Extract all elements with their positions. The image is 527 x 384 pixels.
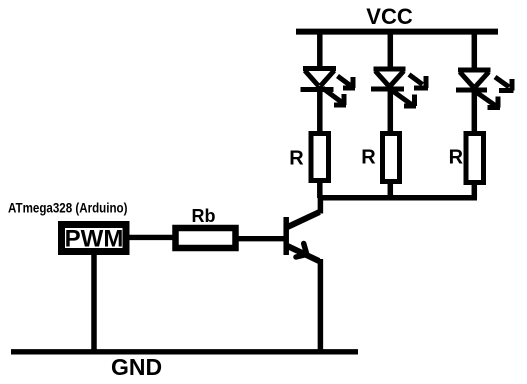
PWM box <box>62 225 127 252</box>
resistor R1 <box>311 134 329 181</box>
wire PWM to Rb <box>126 235 176 240</box>
LED D2 <box>371 69 406 89</box>
resistor R3 <box>466 134 484 183</box>
wire PWM to GND <box>91 252 97 352</box>
transistor Q1 <box>286 196 320 352</box>
svg-text:PWM: PWM <box>65 226 124 253</box>
collector wire vertical <box>318 196 324 214</box>
node line collector bus <box>321 195 477 201</box>
LED D3 <box>456 70 491 90</box>
wire VCC to D2 <box>388 31 394 68</box>
GND rail <box>11 349 358 354</box>
resistor Rb <box>176 228 236 248</box>
svg-text:Rb: Rb <box>192 206 216 226</box>
wire R1 to node <box>317 181 323 198</box>
LED D3 arrows <box>476 77 514 108</box>
svg-text:R: R <box>449 147 464 169</box>
svg-text:VCC: VCC <box>366 4 413 29</box>
wire D2 to R2 <box>388 86 394 133</box>
base bar <box>283 217 289 255</box>
wire VCC to D3 <box>472 31 478 69</box>
resistor R2 <box>383 134 400 182</box>
LED D1 arrows <box>323 76 356 105</box>
LED D2 arrows <box>392 75 428 107</box>
wire D3 to R3 <box>472 87 478 133</box>
emitter wire vertical <box>318 259 324 352</box>
collector diagonal <box>288 212 320 227</box>
wire D1 to R1 <box>317 86 323 133</box>
svg-text:GND: GND <box>111 354 162 380</box>
wire Rb to base <box>236 236 288 241</box>
emitter diagonal <box>288 246 320 261</box>
wire VCC to D1 <box>317 31 323 68</box>
svg-text:R: R <box>289 148 304 170</box>
emitter arrow <box>296 244 307 258</box>
wire R2 to node <box>388 182 394 198</box>
VCC rail <box>296 29 498 35</box>
wire R3 to node <box>472 183 478 198</box>
LED D1 <box>301 69 337 90</box>
svg-text:ATmega328 (Arduino): ATmega328 (Arduino) <box>8 200 128 216</box>
svg-text:R: R <box>361 147 376 169</box>
